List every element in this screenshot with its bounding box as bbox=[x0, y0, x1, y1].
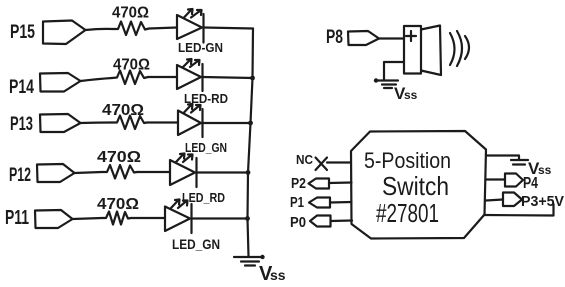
pin connector P15 bbox=[43, 21, 86, 45]
wire P4 bbox=[486, 178, 505, 180]
svg-text:470Ω: 470Ω bbox=[97, 196, 139, 213]
svg-text:P13: P13 bbox=[10, 114, 33, 135]
wire bbox=[147, 121, 178, 123]
junction bbox=[248, 121, 253, 126]
wire P3 bbox=[486, 200, 503, 201]
pin connector P1 bbox=[309, 198, 330, 208]
wire +5V return bbox=[485, 204, 554, 216]
wire bbox=[330, 201, 352, 204]
wire bbox=[148, 76, 177, 78]
pin connector P8 bbox=[348, 31, 379, 45]
pin connector P4 bbox=[505, 174, 523, 187]
svg-text:P15: P15 bbox=[10, 22, 35, 43]
svg-text:470Ω: 470Ω bbox=[102, 102, 144, 119]
svg-text:P0: P0 bbox=[290, 214, 306, 231]
svg-text:P8: P8 bbox=[326, 27, 343, 48]
svg-text:ss: ss bbox=[538, 163, 552, 177]
wire bbox=[137, 171, 170, 173]
wire bbox=[379, 37, 404, 39]
wire bbox=[203, 77, 254, 78]
svg-text:NC: NC bbox=[296, 152, 314, 167]
junction bbox=[246, 170, 251, 175]
wire bbox=[329, 181, 352, 184]
pin connector P11 bbox=[35, 210, 73, 228]
pin connector P13 bbox=[40, 114, 81, 132]
svg-text:ss: ss bbox=[404, 88, 418, 102]
wire bbox=[204, 28, 254, 29]
wire bbox=[131, 217, 165, 219]
LED D1 bbox=[177, 15, 202, 39]
svg-text:P2: P2 bbox=[291, 175, 306, 192]
resistor R5 bbox=[102, 212, 131, 225]
pin connector P3 bbox=[503, 193, 522, 207]
X mark bbox=[316, 158, 328, 171]
wire Vss pin bbox=[486, 156, 519, 160]
wire bbox=[197, 171, 249, 173]
5-position switch box U1 bbox=[351, 131, 486, 239]
speaker body bbox=[404, 26, 421, 74]
pin connector P12 bbox=[37, 164, 75, 182]
resistor R3 bbox=[112, 116, 147, 130]
wire bbox=[331, 219, 353, 222]
svg-text:P1: P1 bbox=[290, 194, 304, 211]
svg-text:5-Position: 5-Position bbox=[364, 148, 451, 173]
junction bbox=[250, 76, 255, 81]
wire bbox=[203, 122, 252, 124]
ground Vss (left block) bbox=[234, 256, 263, 258]
wire bbox=[149, 28, 177, 29]
pin connector P0 bbox=[310, 216, 331, 227]
LED D4 bbox=[170, 160, 195, 185]
pin connector P14 bbox=[40, 73, 81, 92]
ground (switch) bbox=[511, 159, 528, 161]
sound waves bbox=[450, 33, 455, 65]
LED D3 bbox=[178, 111, 201, 136]
wire bbox=[192, 217, 248, 219]
resistor R2 bbox=[112, 71, 148, 85]
svg-text:#27801: #27801 bbox=[376, 198, 439, 228]
speaker cone bbox=[421, 26, 441, 76]
plus sign bbox=[406, 31, 416, 41]
wire bbox=[384, 62, 404, 80]
svg-text:P11: P11 bbox=[5, 207, 29, 229]
svg-text:LED_RD: LED_RD bbox=[182, 190, 225, 205]
svg-text:P12: P12 bbox=[9, 165, 31, 186]
resistor R4 bbox=[102, 165, 137, 179]
wire bbox=[81, 78, 113, 81]
wire bbox=[86, 29, 114, 30]
svg-text:470Ω: 470Ω bbox=[113, 57, 150, 74]
svg-text:ss: ss bbox=[270, 267, 286, 283]
svg-text:LED_GN: LED_GN bbox=[172, 236, 220, 252]
bus wire to ground bbox=[248, 29, 254, 257]
junction bbox=[245, 216, 250, 221]
svg-text:470Ω: 470Ω bbox=[112, 5, 149, 22]
svg-text:LED_GN: LED_GN bbox=[185, 140, 227, 155]
wire bbox=[75, 172, 103, 173]
svg-text:LED-GN: LED-GN bbox=[178, 40, 223, 55]
wire bbox=[73, 218, 103, 219]
wire bbox=[81, 121, 113, 124]
LED D5 bbox=[165, 207, 190, 232]
wire bbox=[327, 161, 351, 163]
svg-text:P4: P4 bbox=[523, 175, 538, 192]
svg-text:P3+5V: P3+5V bbox=[521, 193, 564, 210]
LED D2 bbox=[177, 65, 201, 89]
resistor R1 bbox=[113, 22, 149, 36]
pin connector P2 bbox=[309, 179, 330, 189]
svg-text:470Ω: 470Ω bbox=[97, 149, 141, 166]
svg-text:Switch: Switch bbox=[382, 171, 449, 201]
ground (speaker) bbox=[375, 79, 398, 81]
svg-text:P14: P14 bbox=[9, 77, 34, 98]
